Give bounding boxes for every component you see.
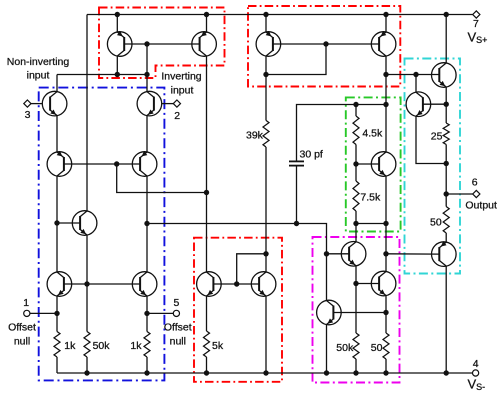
wire Q14 collector — [445, 15, 447, 63]
svg-text:3: 3 — [25, 109, 31, 121]
wire Q13 emitter — [385, 15, 387, 32]
wire Q3 Q4 bases — [64, 163, 140, 165]
label R8 25 — [431, 131, 443, 143]
junction Q9 emitter / V+ rail — [204, 12, 209, 17]
output stage (cyan box) — [405, 59, 461, 274]
junction Q1 Q2 collectors — [144, 72, 149, 77]
junction Q7 emitter / Q5 Q6 bases — [84, 281, 89, 286]
wire R8 bottom — [445, 145, 447, 164]
svg-text:7.5k: 7.5k — [360, 192, 381, 204]
wire Q7 emitter to R2 — [86, 284, 88, 332]
label R4 5k — [212, 340, 224, 352]
junction Q4 collector node A — [144, 221, 149, 226]
wire Q17 emitter — [416, 116, 446, 163]
label R2 50k — [93, 340, 111, 352]
label R10 50k — [336, 342, 354, 354]
wire Q7 base — [57, 222, 80, 224]
wire Q20 base — [386, 253, 439, 255]
class A gain stage (magenta box) — [313, 237, 400, 383]
transistor Q17 — [406, 92, 431, 117]
svg-text:50: 50 — [430, 217, 442, 229]
wire Q22 emitter — [326, 325, 328, 373]
wire Q8 base to collector tie — [146, 44, 148, 75]
label R11 50 — [371, 342, 383, 354]
svg-text:Non-inverting: Non-inverting — [7, 56, 70, 68]
transistor Q20 — [432, 241, 457, 266]
transistor Q13 — [371, 31, 396, 56]
wire Q9 collector down to Q10 — [206, 56, 208, 272]
wire Q19 base — [356, 283, 379, 285]
svg-text:2: 2 — [174, 110, 180, 122]
transistor Q7 — [72, 211, 97, 236]
transistor Q4 — [132, 151, 157, 176]
pin 6 terminal — [473, 190, 480, 197]
current mirror Q12 Q13 (red box) — [248, 6, 400, 87]
wire R9 bottom to Q20 — [445, 233, 447, 242]
junction Q22 emitter / V- rail — [324, 370, 329, 375]
wire Q13 collector to Q14 base — [386, 74, 439, 76]
svg-text:5: 5 — [173, 297, 179, 309]
wire output node — [445, 164, 447, 195]
wire Q8 collector — [116, 56, 118, 74]
svg-text:50: 50 — [371, 342, 383, 354]
transistor Q22 — [317, 300, 342, 325]
transistor Q3 — [47, 151, 72, 176]
junction Q14 emitter / Q17 base — [444, 102, 449, 107]
wire Q11 diode tie — [237, 254, 266, 284]
resistor R5 39k — [263, 120, 269, 147]
transistor Q11 — [251, 272, 276, 297]
transistor Q9 — [192, 31, 217, 56]
wire R2 bottom — [86, 357, 88, 373]
wire Q2 base to pin2 — [162, 103, 174, 105]
resistor R10 50k — [353, 333, 359, 359]
wire Q16 base — [356, 163, 379, 165]
wire R7 bottom node — [356, 223, 386, 225]
transistor Q1 — [42, 91, 67, 116]
junction Q6 emitter / pin5 — [144, 311, 149, 316]
wire pin5 — [147, 312, 173, 314]
wire Q12 emitter — [265, 15, 267, 32]
wire pin1 — [30, 312, 57, 314]
wire V- rail — [57, 372, 473, 374]
label Non-inverting input — [7, 56, 70, 82]
junction R3 / V- rail — [144, 370, 149, 375]
label Inverting input — [161, 71, 201, 97]
wire 1k R3 top — [146, 313, 148, 331]
wire Q10 emitter to R4 — [206, 296, 208, 331]
transistor Q8 — [107, 31, 132, 56]
wire R6 top — [355, 105, 357, 117]
transistor Q14 — [432, 63, 457, 88]
wire 1k R1 top — [56, 313, 58, 331]
junction R6 top node — [353, 102, 358, 107]
label pin 6 — [472, 176, 478, 188]
svg-text:Offset: Offset — [8, 322, 36, 334]
label pin 7 — [473, 18, 479, 30]
resistor R8 25 — [443, 123, 449, 145]
wire Q8 emitter — [116, 15, 118, 32]
junction R7 bottom — [353, 221, 358, 226]
junction C1 bottom — [294, 221, 299, 226]
resistor R4 5k — [204, 331, 210, 357]
transistor Q19 — [371, 271, 396, 296]
current mirror Q8 Q9 (red box) — [99, 8, 225, 79]
label R7 7.5k — [360, 192, 381, 204]
wire Q17 collector — [415, 75, 417, 93]
junction Q12 collector node — [263, 72, 268, 77]
label VS+ — [468, 30, 488, 46]
wire Q20 collector to V- — [445, 266, 447, 373]
resistor R2 50k — [84, 332, 90, 358]
svg-text:Offset: Offset — [164, 322, 192, 334]
pin 2 terminal — [173, 100, 180, 107]
transistor Q2 — [137, 91, 162, 116]
svg-text:30 pf: 30 pf — [300, 149, 323, 161]
wire Q11 collector to R5 — [265, 147, 267, 272]
wire Q15 emitter to Q19 base — [355, 266, 357, 284]
wire Q22 base — [333, 312, 386, 314]
label R1 1k — [64, 340, 76, 352]
junction Q15 base / Q22 collector — [324, 251, 329, 256]
wire Q2 emitter to Q4 — [146, 116, 148, 152]
wire R10 bottom — [355, 359, 357, 373]
resistor R7 7.5k — [353, 181, 359, 211]
junction Q13 emitter / V+ rail — [383, 12, 388, 17]
transistor Q12 — [256, 31, 281, 56]
wire Q1 collector — [56, 75, 58, 92]
wire Q2 collector — [146, 75, 148, 92]
junction R10 / V- rail — [353, 370, 358, 375]
svg-text:25: 25 — [431, 131, 443, 143]
wire Q8 Q9 bases — [124, 43, 199, 45]
junction Q17 collector node — [413, 72, 418, 77]
junction Q13 collector node — [383, 72, 388, 77]
resistor R9 50 — [443, 207, 449, 234]
wire R3 bottom — [146, 357, 148, 373]
wire Q14 emitter — [445, 87, 447, 104]
transistor Q16 — [371, 152, 396, 177]
wire cap bottom — [296, 166, 298, 224]
wire Q15 base — [327, 253, 350, 255]
wire Q11 emitter — [265, 296, 267, 373]
current mirror Q10 Q11 (red box) — [194, 238, 282, 382]
junction R4 / V- rail — [204, 370, 209, 375]
junction Q8 emitter / V+ rail — [115, 12, 120, 17]
junction R8 bottom / output leg — [444, 161, 449, 166]
wire V+ rail — [87, 14, 473, 16]
label VS- — [468, 377, 486, 393]
resistor R1 1k — [54, 332, 60, 358]
voltage level shifter Q16 (green box) — [346, 97, 401, 231]
label R5 39k — [246, 130, 264, 142]
junction Q3 collector / Q7 base — [54, 220, 59, 225]
wire R9 top — [445, 194, 447, 207]
label C1 30pf — [300, 149, 323, 161]
wire Q7 collector to V+ — [86, 15, 88, 212]
wire Q5 Q6 bases — [64, 283, 140, 285]
junction R2 / V- rail — [84, 370, 89, 375]
wire Q9 emitter — [206, 15, 208, 32]
label Offset null left — [8, 322, 36, 348]
wire Q12 Q13 bases — [273, 43, 379, 45]
junction output node — [444, 191, 449, 196]
wire Q3 collector to Q5 — [56, 176, 58, 272]
label pin 2 — [174, 110, 180, 122]
transistor Q15 — [341, 242, 366, 267]
wire Q10 base loop — [213, 283, 236, 285]
svg-text:50k: 50k — [336, 342, 354, 354]
wire Q10 Q11 bases — [237, 283, 259, 285]
svg-text:4: 4 — [473, 358, 479, 370]
svg-text:39k: 39k — [246, 130, 264, 142]
junction Q11 collector tie — [263, 251, 268, 256]
label R9 50 — [430, 217, 442, 229]
transistor Q10 — [197, 272, 222, 297]
transistor Q5 — [47, 272, 72, 297]
wire Q12 collector — [265, 56, 267, 74]
wire Q5 emitter — [56, 296, 58, 313]
junction Q12 emitter / V+ rail — [263, 12, 268, 17]
svg-text:input: input — [27, 70, 50, 82]
label pin 1 — [23, 297, 29, 309]
wire R7 top — [355, 164, 357, 181]
junction R11 / V- rail — [383, 370, 388, 375]
junction Q9 collector / bias node — [204, 190, 209, 195]
wire R6 bottom to node — [355, 145, 357, 165]
pin 5 terminal — [173, 310, 179, 316]
pin 1 terminal — [24, 310, 30, 316]
wire to pin6 — [446, 193, 473, 195]
wire Q16 emitter — [385, 176, 387, 271]
wire Q12 base collector tie — [266, 44, 326, 75]
transistor Q6 — [132, 272, 157, 297]
wire Q15 collector — [355, 224, 357, 242]
junction Q11 emitter / V- rail — [263, 370, 268, 375]
svg-text:5k: 5k — [212, 340, 224, 352]
wire Q3 Q4 base node down — [117, 164, 207, 193]
svg-text:50k: 50k — [93, 340, 111, 352]
wire Q15 emitter to R10 — [355, 284, 357, 334]
wire Q17 base — [423, 103, 446, 105]
junction Q5 emitter / pin1 — [54, 311, 59, 316]
wire Q13 collector — [385, 56, 387, 152]
pin 7 terminal — [473, 11, 480, 18]
wire Q4 collector to class A stage — [147, 224, 327, 301]
svg-text:1k: 1k — [130, 340, 142, 352]
junction Q22 base / Q19 emitter — [383, 310, 388, 315]
resistor R6 4.5k — [353, 116, 359, 145]
label R3 1k — [130, 340, 142, 352]
wire R8 top — [445, 104, 447, 123]
svg-text:null: null — [14, 336, 30, 348]
svg-text:7: 7 — [473, 18, 479, 30]
svg-text:Output: Output — [465, 199, 497, 211]
capacitor C1 30pf — [289, 161, 304, 165]
wire R1 bottom — [56, 357, 58, 373]
svg-text:VS-: VS- — [468, 377, 486, 393]
label pin 4 — [473, 358, 479, 370]
wire compensation cap top — [297, 105, 387, 162]
wire Q4 collector to Q6 — [146, 176, 148, 272]
svg-text:VS+: VS+ — [468, 30, 488, 46]
svg-text:Inverting: Inverting — [161, 71, 201, 83]
junction Q10 Q11 bases — [234, 281, 239, 286]
wire R7 bottom — [355, 211, 357, 224]
svg-text:1: 1 — [23, 297, 29, 309]
label pin 3 — [25, 109, 31, 121]
junction Q15 emitter / Q19 base — [353, 281, 358, 286]
pin 3 terminal — [24, 100, 31, 107]
wire Q7 emitter — [86, 235, 88, 284]
svg-text:4.5k: 4.5k — [362, 128, 383, 140]
junction Q16 base / R6 R7 — [353, 161, 358, 166]
wire R11 bottom — [385, 359, 387, 373]
wire pin3 to Q1 base — [31, 103, 42, 105]
junction Q12 Q13 bases — [323, 41, 328, 46]
svg-text:null: null — [170, 336, 186, 348]
label pin 5 — [173, 297, 179, 309]
junction Q16 emitter node — [383, 221, 388, 226]
label Offset null right — [164, 322, 192, 348]
label R6 4.5k — [362, 128, 383, 140]
svg-text:1k: 1k — [64, 340, 76, 352]
wire Q19 emitter — [385, 296, 387, 333]
resistor R3 1k — [144, 332, 150, 358]
resistor R11 50 — [383, 333, 389, 359]
differential amplifier stage (blue box) — [39, 88, 165, 381]
pin 4 terminal — [473, 370, 479, 376]
junction Q3 Q4 bases — [114, 161, 119, 166]
wire Q1 emitter to Q3 — [56, 116, 58, 152]
svg-text:6: 6 — [472, 176, 478, 188]
junction Q20 / V- rail — [444, 370, 449, 375]
wire Q1 Q2 collectors node — [57, 74, 147, 76]
wire R5 top to Q12 collector — [265, 75, 267, 121]
junction Q14 collector / V+ rail — [444, 12, 449, 17]
wire R4 bottom — [206, 357, 208, 373]
svg-text:input: input — [171, 85, 194, 97]
junction Q20 base node — [383, 251, 388, 256]
wire Q6 emitter — [146, 296, 148, 313]
label Output — [465, 199, 497, 211]
junction Q16 collector node — [383, 102, 388, 107]
junction Q8 collector node — [115, 72, 120, 77]
junction Q8 Q9 bases — [144, 41, 149, 46]
